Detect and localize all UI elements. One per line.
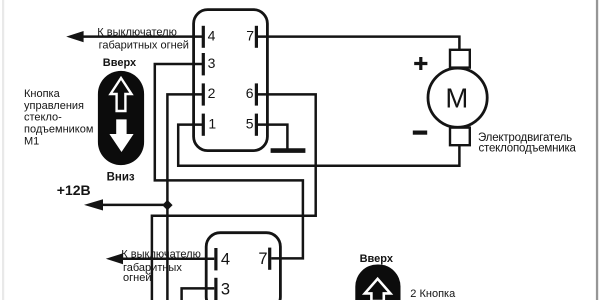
pin 7 X1 (246, 26, 256, 48)
svg-text:3: 3 (208, 55, 216, 71)
motor minus terminal (413, 131, 427, 135)
svg-text:6: 6 (246, 85, 254, 101)
pin 5 X1 (246, 114, 257, 136)
pin 4 X2 (216, 248, 230, 270)
svg-text:огней: огней (123, 272, 151, 284)
svg-text:+12В: +12В (57, 182, 91, 198)
node junction +12V (162, 200, 172, 210)
wire pin6-X1 cross link down-left (152, 94, 316, 300)
wire pin2-X1 down to bottom edge (167, 94, 202, 300)
pin 2 X1 (203, 83, 215, 105)
svg-text:габаритных огней: габаритных огней (99, 40, 189, 52)
svg-text:К выключателю: К выключателю (121, 249, 201, 261)
svg-text:3: 3 (221, 280, 230, 298)
arrow to lights switch (bottom) (106, 253, 123, 264)
svg-text:7: 7 (258, 250, 267, 268)
svg-text:7: 7 (246, 27, 254, 43)
motor plus terminal (414, 57, 427, 70)
svg-text:К выключателю: К выключателю (97, 27, 177, 39)
button M1 down arrow (109, 119, 133, 152)
pin 7 X2 (258, 248, 269, 270)
svg-text:подъемником: подъемником (24, 124, 93, 136)
wire +12V feed (101, 204, 167, 207)
pin 3 X2 (216, 278, 230, 300)
svg-text:управления: управления (24, 100, 84, 112)
svg-text:2 Кнопка: 2 Кнопка (410, 288, 456, 300)
wire pin4-X2 to lights switch (122, 258, 215, 261)
wire pin1-X1 to motor minus brush (178, 125, 459, 166)
button 2 body (355, 265, 400, 300)
button M1 up arrow (111, 78, 132, 111)
svg-text:4: 4 (221, 251, 230, 269)
arrow +12V (84, 199, 103, 210)
pin 1 X1 (203, 114, 216, 136)
svg-text:Кнопка: Кнопка (24, 88, 61, 100)
svg-text:2: 2 (208, 85, 216, 101)
connector X2 outline (bottom, clipped) (206, 233, 280, 300)
wire pin5-X1 to ground (258, 125, 287, 149)
svg-text:Вверх: Вверх (103, 57, 137, 69)
svg-text:стекло-: стекло- (24, 112, 62, 124)
svg-text:Вниз: Вниз (107, 171, 135, 183)
wire pin3-X1 to pin7-X2 (155, 64, 303, 258)
right scan edge (596, 0, 598, 300)
connector X1 outline (194, 10, 268, 151)
svg-text:Вверх: Вверх (360, 253, 394, 265)
ground (271, 148, 306, 153)
arrow to lights switch (top) (66, 31, 83, 42)
motor brush bottom (450, 128, 470, 146)
svg-text:М1: М1 (24, 136, 39, 148)
motor brush top (450, 50, 470, 68)
svg-text:4: 4 (208, 27, 216, 43)
svg-text:5: 5 (246, 115, 254, 131)
motor M circle (428, 68, 487, 127)
svg-text:1: 1 (208, 115, 216, 131)
wire pin7-X1 to motor plus brush (258, 37, 459, 51)
svg-text:М: М (445, 83, 468, 114)
wire pin4-X1 to lights switch (83, 35, 202, 38)
pin 4 X1 (203, 26, 215, 48)
pin 6 X1 (246, 83, 257, 105)
button 2 up arrow (365, 279, 391, 300)
button M1 body (98, 71, 144, 165)
pin 3 X1 (203, 53, 215, 75)
left scan edge (2, 0, 4, 300)
wire pin3-X2 down to bottom edge (182, 288, 215, 300)
svg-text:стеклоподъемника: стеклоподъемника (479, 142, 577, 154)
